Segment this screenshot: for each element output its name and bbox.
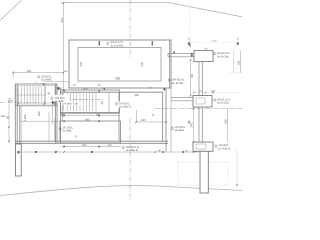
svg-text:186: 186 <box>225 119 228 124</box>
svg-text:820: 820 <box>38 111 41 116</box>
svg-text:GL·B,C/8L: GL·B,C/8L <box>172 82 185 85</box>
svg-text:26: 26 <box>101 101 104 104</box>
svg-text:1,820: 1,820 <box>24 114 27 121</box>
svg-text:GL·B/8L: GL·B/8L <box>62 130 72 133</box>
svg-text:P: P <box>75 136 77 139</box>
svg-text:110: 110 <box>108 144 113 147</box>
svg-text:26: 26 <box>6 116 9 119</box>
svg-text:GL·B,C/8FL: GL·B,C/8FL <box>110 44 124 47</box>
svg-text:360: 360 <box>141 119 146 122</box>
svg-text:294: 294 <box>27 69 32 73</box>
svg-text:GL·P/8L·B: GL·P/8L·B <box>218 147 230 150</box>
svg-text:GL·B,C/8L: GL·B,C/8L <box>217 102 230 105</box>
svg-text:241: 241 <box>79 61 83 66</box>
svg-text:1,820: 1,820 <box>211 39 218 42</box>
svg-text:GL·B/8L: GL·B/8L <box>175 129 185 132</box>
svg-text:90: 90 <box>59 87 62 90</box>
svg-text:241: 241 <box>140 61 144 66</box>
svg-text:495: 495 <box>85 118 90 121</box>
svg-text:GL·B/8L: GL·B/8L <box>54 100 64 103</box>
svg-text:430: 430 <box>83 87 88 90</box>
svg-text:241: 241 <box>237 60 240 65</box>
svg-text:241: 241 <box>60 18 64 23</box>
svg-text:GL·B,C/8L: GL·B,C/8L <box>217 55 230 58</box>
svg-text:GL·B/8L·B: GL·B/8L·B <box>126 149 138 152</box>
svg-text:400: 400 <box>82 144 87 147</box>
svg-text:UP·16R 17=28: UP·16R 17=28 <box>63 103 79 106</box>
svg-text:110: 110 <box>211 90 216 93</box>
svg-text:18A: 18A <box>1 115 6 118</box>
svg-text:110: 110 <box>204 48 208 51</box>
svg-text:495: 495 <box>115 76 120 80</box>
svg-text:241: 241 <box>190 122 194 127</box>
svg-text:GL·B/8L·B: GL·B/8L·B <box>119 106 131 109</box>
svg-text:360: 360 <box>135 94 140 97</box>
svg-text:49: 49 <box>190 74 194 78</box>
svg-text:26: 26 <box>48 92 51 95</box>
